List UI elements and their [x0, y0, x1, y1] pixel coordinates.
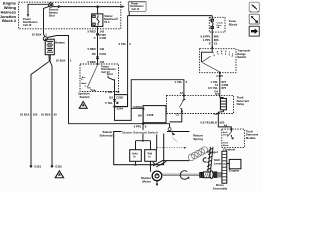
svg-text:C201: C201 — [99, 52, 106, 56]
crank fuse — [211, 16, 213, 32]
C202 connector outline — [115, 95, 128, 107]
theft deterrent relay dashed box — [167, 95, 234, 113]
module internals — [223, 131, 229, 147]
svg-text:Spring: Spring — [193, 137, 203, 141]
svg-text:Run: Run — [92, 90, 97, 92]
ground G101 — [30, 165, 33, 168]
output to relay — [219, 73, 221, 96]
relay coil output to theft module — [218, 114, 231, 130]
wire fuse to PNP switch — [211, 32, 213, 49]
svg-text:50: 50 — [54, 113, 58, 117]
wire through C158 down to bus — [142, 110, 144, 123]
svg-text:Block 2: Block 2 — [2, 18, 17, 23]
svg-text:Stud: Stud — [49, 13, 55, 17]
C158 connector — [143, 106, 166, 123]
transaxle range switch dashed box — [200, 49, 236, 73]
svg-text:D4: D4 — [215, 92, 219, 96]
svg-text:5 RED: 5 RED — [87, 47, 95, 51]
wire 5 RED 142 from fuse to ignition switch — [97, 26, 99, 64]
shift lever link — [153, 160, 167, 167]
svg-text:C1: C1 — [214, 41, 218, 45]
svg-text:10 BLK: 10 BLK — [32, 32, 42, 36]
button 2: arrow tool — [249, 14, 259, 24]
svg-text:Motor: Motor — [142, 180, 151, 184]
ignition switch contacts — [97, 64, 99, 65]
svg-text:10 BLK: 10 BLK — [41, 113, 51, 117]
svg-text:G101: G101 — [34, 165, 41, 169]
label 5 PPL 6 near C158 input — [133, 105, 142, 118]
ignition switch label — [78, 92, 89, 99]
remote battery stud — [49, 3, 53, 7]
switch internals — [202, 49, 213, 62]
toolbar buttons — [249, 2, 259, 36]
svg-text:2: 2 — [232, 53, 233, 55]
svg-text:Battery: Battery — [55, 40, 65, 44]
right top: fuse block, PNP switch — [200, 16, 251, 96]
solenoid box — [114, 132, 164, 165]
node: fuse tap — [96, 5, 99, 8]
pull-in winding — [145, 150, 157, 162]
warning triangle below ignition switch — [78, 100, 88, 109]
solenoid internal contact bar — [156, 135, 158, 150]
svg-text:Cell 10: Cell 10 — [23, 23, 32, 27]
svg-text:0.8 YEL/BLK: 0.8 YEL/BLK — [200, 120, 217, 124]
ignition switch dashed box — [80, 64, 119, 92]
svg-text:E: E — [209, 41, 211, 45]
relay contact — [181, 95, 184, 113]
relay contact output to solenoid feed — [170, 114, 182, 122]
wire stud to battery, 10 BLK 1 — [44, 6, 50, 36]
svg-text:142: 142 — [99, 47, 104, 51]
svg-text:875: 875 — [222, 86, 227, 90]
ground G115 — [51, 165, 54, 168]
tee to C158 — [131, 107, 143, 109]
svg-text:B6: B6 — [138, 114, 142, 118]
shift lever rod (hatched) — [207, 147, 213, 172]
relay coil — [220, 95, 224, 98]
svg-text:Cell 10: Cell 10 — [132, 8, 140, 11]
svg-text:Block: Block — [229, 22, 238, 26]
svg-text:G115: G115 — [55, 165, 62, 169]
battery cable bus to solenoid — [69, 124, 170, 132]
svg-text:10 BLK: 10 BLK — [20, 113, 30, 117]
battery — [43, 37, 65, 55]
middle: ignition switch area — [69, 64, 188, 141]
rotation symbol — [180, 171, 188, 180]
svg-text:150: 150 — [33, 113, 38, 117]
svg-text:Module: Module — [246, 136, 256, 140]
relay and theft module — [167, 92, 259, 147]
svg-text:C158: C158 — [147, 113, 154, 117]
inline connector C201 symbol — [96, 57, 99, 59]
drive assembly — [200, 171, 222, 179]
ground wires from battery — [31, 55, 49, 166]
svg-text:5 YEL: 5 YEL — [105, 101, 113, 105]
start output wire 5 YEL down to S204 — [115, 79, 184, 120]
svg-text:Starter Solenoid Switch: Starter Solenoid Switch — [122, 130, 158, 134]
svg-text:3 YEL: 3 YEL — [118, 42, 126, 46]
annotation arrow to Power Distribution Cell 10 — [27, 4, 49, 17]
svg-text:Lever: Lever — [214, 161, 222, 165]
grommet symbol — [96, 33, 99, 36]
wire stud to distribution ref — [53, 6, 122, 8]
svg-text:B3: B3 — [109, 95, 113, 99]
svg-text:Off: Off — [87, 87, 90, 89]
svg-text:Engine: Engine — [229, 169, 240, 173]
svg-text:Assembly: Assembly — [213, 186, 228, 190]
Power Distribution Cell 10 note — [23, 17, 38, 27]
battery cable to starter (10 BLK 1) — [47, 36, 68, 124]
svg-text:Switch: Switch — [80, 95, 90, 99]
wire from ref box down and right to crank fuse — [128, 11, 213, 15]
terminal ticks on wire — [113, 100, 116, 102]
warning triangle near G115 — [54, 170, 64, 179]
solenoid B terminal — [168, 128, 171, 131]
big dashed junction block box — [19, 2, 121, 29]
svg-text:5 RED: 5 RED — [87, 29, 95, 33]
splice S204 — [113, 105, 116, 108]
shift lever pivot — [203, 158, 206, 162]
theft deterrent module dashed box — [222, 129, 245, 148]
svg-text:43: 43 — [116, 90, 120, 94]
text on top edge — [122, 130, 168, 133]
svg-text:C1: C1 — [176, 113, 180, 117]
svg-text:10 BLK: 10 BLK — [56, 58, 66, 62]
svg-text:D6: D6 — [92, 52, 96, 56]
button 1: draw tool — [249, 2, 259, 12]
exit terminal tick — [219, 72, 221, 74]
hold-in winding — [136, 141, 151, 150]
wire pull-in to motor — [150, 165, 152, 172]
starter assembly — [99, 130, 240, 190]
svg-text:A4: A4 — [224, 123, 228, 127]
svg-text:5 PPL: 5 PPL — [134, 125, 142, 129]
return spring — [193, 133, 203, 140]
svg-text:Solenoid: Solenoid — [99, 134, 112, 138]
svg-text:C202: C202 — [116, 95, 123, 99]
wire from C158 bus junction into solenoid — [142, 124, 144, 141]
svg-text:Lock: Lock — [81, 83, 87, 85]
top area: stud, battery feed, maxifuse — [49, 2, 213, 107]
starter maxifuse — [92, 14, 119, 27]
1 YEL 5 drop to relay — [174, 80, 187, 95]
engine wiring harness junction block 2 label — [0, 1, 17, 24]
svg-text:C175: C175 — [216, 74, 223, 78]
svg-text:A4: A4 — [214, 112, 218, 116]
svg-text:Relay: Relay — [237, 102, 245, 106]
svg-text:1 YEL: 1 YEL — [174, 80, 182, 84]
svg-text:50 A: 50 A — [104, 20, 110, 24]
svg-text:S204: S204 — [117, 106, 124, 110]
svg-text:3: 3 — [229, 52, 230, 54]
entry terminal tick — [211, 47, 213, 49]
svg-text:Switch: Switch — [237, 55, 246, 59]
enclosure extension lines — [164, 132, 190, 161]
remote battery stud label — [49, 7, 59, 17]
svg-text:5 YEL: 5 YEL — [105, 90, 113, 94]
svg-text:Start: Start — [107, 72, 113, 76]
contact arrow inside solenoid — [153, 162, 156, 165]
crank fuse block — [209, 17, 225, 32]
svg-text:C100: C100 — [99, 36, 106, 40]
button 3: next arrow — [249, 26, 259, 36]
engine box — [229, 159, 241, 168]
svg-text:C: C — [94, 36, 96, 40]
power distribution cell reference box — [128, 2, 146, 12]
starter solenoid label — [99, 130, 113, 137]
svg-text:A1: A1 — [180, 91, 184, 95]
starter motor — [152, 171, 162, 181]
wire 3 YEL 5 down from corner — [116, 16, 128, 107]
module entry tick — [231, 128, 233, 130]
plunger travel dashed line — [173, 137, 178, 142]
wire down from stud line to maxifuse — [97, 7, 99, 14]
svg-text:5A: 5A — [217, 26, 220, 29]
relay terminal ticks — [183, 94, 185, 96]
shaft — [162, 174, 200, 176]
battery and grounds — [20, 6, 72, 178]
arrow mark at B terminal — [172, 132, 176, 136]
